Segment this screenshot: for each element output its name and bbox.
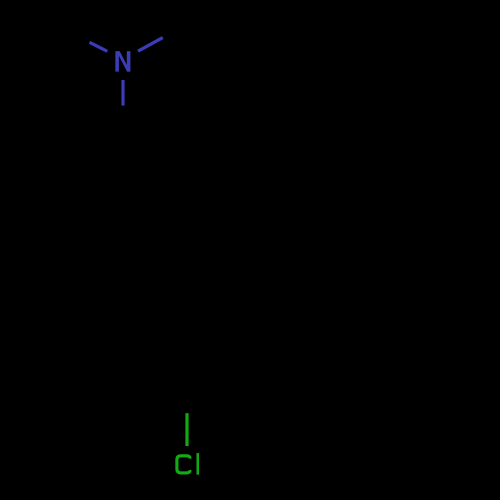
atom label N (nitrogen, blue)	[115, 51, 130, 71]
bond C-Cl, ring-carbon half (black, invisible on black)	[185, 382, 189, 413]
bond N-CH2 (chain), carbon half (black, invisible on black)	[122, 106, 126, 151]
bond C-Cl, chlorine half	[185, 413, 188, 446]
bond N-CH3 (left methyl), nitrogen half	[90, 42, 108, 51]
atom label Cl (chlorine, green)	[177, 453, 199, 475]
bond N-CH3 (right methyl), outer carbon half (black, invisible on black)	[163, 24, 188, 38]
bond N-CH3 (left methyl), outer carbon half (black, invisible on black)	[72, 33, 90, 42]
bond N-CH2 (chain), nitrogen half	[121, 80, 124, 106]
bond N-CH3 (right methyl), nitrogen half	[138, 38, 163, 52]
